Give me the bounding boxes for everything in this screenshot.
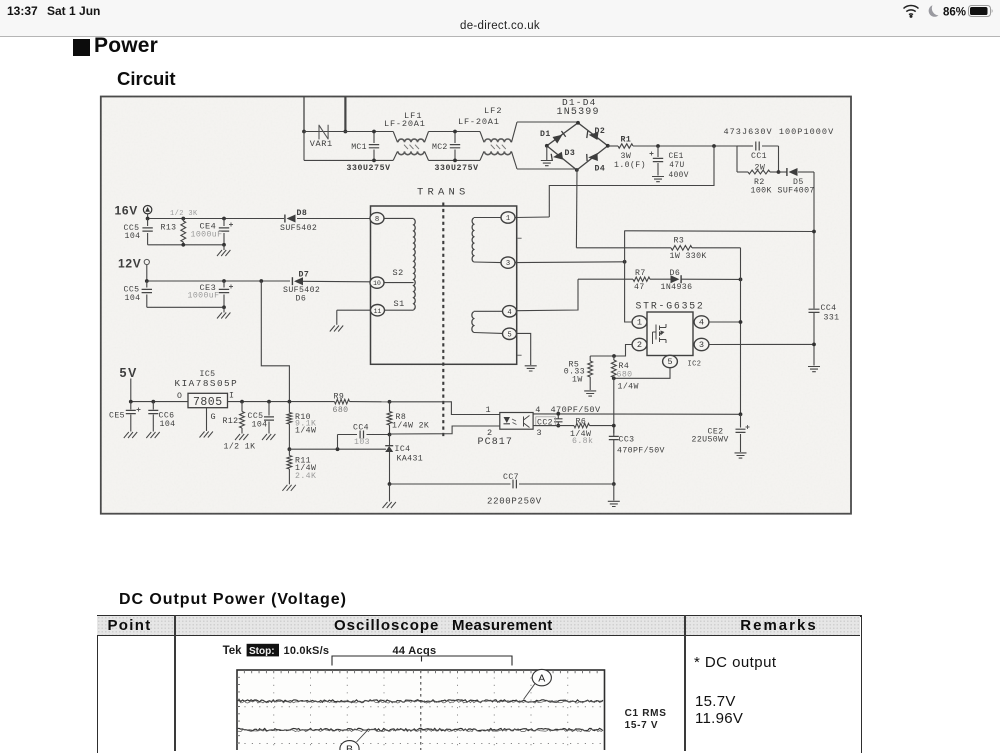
svg-text:3: 3 — [537, 428, 543, 438]
svg-text:470PF/50V: 470PF/50V — [617, 445, 665, 455]
svg-text:1/2 1K: 1/2 1K — [224, 441, 256, 451]
wire rail to PC817 pin1 — [390, 402, 500, 415]
svg-text:5V: 5V — [120, 366, 138, 380]
node KA431 cathode — [388, 433, 392, 437]
wire MC1 loop top rail — [304, 131, 393, 133]
node R4 top — [612, 354, 616, 358]
winding secondary lower — [474, 310, 502, 312]
capacitor CC5 (16V) — [146, 217, 150, 221]
svg-text:1W: 1W — [572, 375, 583, 384]
node CC3 bottom / CC7 line — [612, 482, 616, 486]
scope frame minor ticks — [237, 670, 597, 743]
wire AC input line 1 — [303, 97, 305, 132]
svg-text:O: O — [177, 392, 182, 401]
capacitor CC2 — [554, 419, 562, 422]
pin 1 of IC2 — [632, 316, 647, 328]
svg-text:S2: S2 — [393, 268, 404, 278]
diode D7 — [294, 277, 303, 285]
svg-text:104: 104 — [252, 420, 268, 429]
wire pin 11 to ground — [337, 309, 370, 311]
svg-text:1/4W: 1/4W — [618, 382, 639, 392]
diode D6 — [671, 275, 680, 283]
capacitor CE2 — [740, 414, 742, 427]
svg-text:R9: R9 — [334, 392, 345, 401]
wire 12V rail — [146, 265, 148, 281]
acquisition bracket — [332, 656, 512, 666]
node AC rail junctions — [302, 130, 306, 134]
svg-text:1: 1 — [486, 405, 492, 415]
svg-text:1/4W: 1/4W — [295, 425, 316, 435]
svg-text:680: 680 — [333, 406, 349, 415]
winding secondary upper — [474, 217, 501, 219]
wire 16V rail — [147, 214, 149, 219]
pin 3 of IC2 — [694, 338, 709, 350]
svg-text:STR-G6352: STR-G6352 — [636, 301, 705, 312]
svg-text:2: 2 — [637, 340, 642, 350]
svg-text:16V: 16V — [115, 204, 138, 218]
node R7 row right — [739, 278, 743, 282]
ground under CE3 — [223, 307, 225, 312]
marker B — [340, 741, 359, 753]
svg-text:PC817: PC817 — [478, 437, 514, 448]
svg-text:3: 3 — [699, 340, 704, 350]
ground under CC4 column — [808, 367, 820, 372]
svg-text:LF-20A1: LF-20A1 — [458, 117, 500, 127]
diode D2 — [587, 131, 599, 140]
svg-text:D2: D2 — [595, 127, 606, 136]
pin 4 — [503, 306, 517, 317]
trace B waveform — [238, 728, 604, 731]
resistor R13 — [181, 217, 185, 221]
capacitor CE1 — [656, 144, 660, 148]
wire 7805 ground lead — [206, 408, 208, 431]
section heading Power — [73, 39, 90, 56]
wire pin1 stub — [625, 316, 632, 322]
svg-text:5: 5 — [667, 357, 672, 367]
op-amp U1 STR-G6352 IC2 — [647, 312, 693, 356]
pin 4 of IC2 — [694, 316, 709, 328]
capacitor CC5 (5V) — [267, 400, 271, 404]
svg-text:D7: D7 — [299, 270, 310, 279]
svg-text:CC4: CC4 — [353, 423, 369, 432]
wire KA431 reference line — [289, 448, 386, 450]
svg-text:3: 3 — [506, 260, 510, 268]
capacitor MC2 — [454, 132, 456, 144]
svg-text:1W 330K: 1W 330K — [670, 252, 707, 261]
wire feedback column — [613, 378, 615, 433]
svg-text:1N5399: 1N5399 — [557, 107, 600, 118]
svg-text:1/4W 2K: 1/4W 2K — [392, 421, 429, 431]
resistor R3 — [671, 246, 692, 251]
diode bridge D1-D4 — [547, 123, 608, 170]
svg-text:1N4936: 1N4936 — [661, 283, 693, 292]
pin 1 — [501, 212, 515, 223]
capacitor CE4 — [222, 217, 226, 221]
wire PC817 pin3 line — [533, 425, 574, 427]
wire pin3 to CC4 column — [709, 343, 814, 345]
wire MC1 loop left side — [303, 132, 305, 161]
svg-text:CC4: CC4 — [821, 304, 837, 313]
wire primary feed to pin 1 — [549, 146, 714, 217]
transformer TRANS body — [371, 206, 517, 364]
svg-text:CC7: CC7 — [503, 473, 519, 482]
transistor inside PC817 — [524, 416, 530, 428]
resistor R6 — [574, 423, 590, 427]
pin 11 — [371, 305, 385, 316]
ground under CC6 — [146, 432, 151, 438]
wire MC1 loop bottom rail — [304, 159, 393, 161]
svg-text:KIA78S05P: KIA78S05P — [175, 378, 239, 389]
ground at bridge left vertex — [546, 146, 548, 160]
ground under R12 — [235, 434, 240, 440]
svg-text:104: 104 — [125, 294, 141, 303]
svg-text:LF-20A1: LF-20A1 — [384, 119, 426, 129]
svg-text:SUF4007: SUF4007 — [778, 187, 815, 196]
wire R7/D6 row — [578, 278, 633, 280]
svg-text:R7: R7 — [635, 269, 646, 278]
capacitor CE5 — [129, 400, 133, 404]
schematic frame — [101, 97, 851, 514]
svg-text:D1: D1 — [540, 130, 551, 139]
pin 8 — [370, 213, 384, 224]
wifi icon — [904, 6, 919, 15]
resistor R10 — [288, 402, 290, 413]
wire 5V rail — [131, 401, 188, 403]
ground under R11 — [282, 485, 287, 491]
wire pin 3 to gate column — [515, 261, 624, 264]
ground under CC5 (5V) — [262, 434, 267, 440]
svg-text:SUF5402: SUF5402 — [280, 224, 317, 233]
svg-text:KA431: KA431 — [397, 454, 424, 463]
svg-text:1000uF: 1000uF — [188, 292, 220, 301]
moon icon — [929, 5, 939, 17]
svg-text:103: 103 — [354, 438, 370, 447]
svg-text:G: G — [211, 412, 217, 422]
svg-text:R6: R6 — [576, 417, 587, 426]
svg-text:331: 331 — [824, 313, 840, 322]
ground under KA431 — [389, 484, 391, 502]
ground under 7805 — [200, 432, 205, 438]
regulator IC5 KIA78S05P 7805 — [188, 393, 228, 407]
svg-text:CE1: CE1 — [669, 153, 684, 161]
node KA431 anode / CC7 line — [388, 482, 392, 486]
resistor R12 — [240, 400, 244, 404]
svg-text:CC1: CC1 — [751, 152, 767, 161]
svg-text:1.0(F): 1.0(F) — [614, 160, 646, 170]
trace A waveform — [238, 700, 604, 702]
svg-text:7805: 7805 — [193, 396, 223, 409]
svg-text:470PF/50V: 470PF/50V — [551, 405, 601, 415]
svg-text:473J630V 100P1000V: 473J630V 100P1000V — [724, 127, 835, 137]
svg-text:TRANS: TRANS — [417, 187, 470, 199]
inductor LF2 — [480, 132, 484, 143]
wire KA431 to PC817 pin2 — [390, 426, 500, 434]
resistor R2 — [737, 171, 748, 173]
ground at pin 11 — [330, 326, 335, 332]
resistor R11 — [287, 456, 292, 470]
capacitor CC1 — [737, 145, 753, 147]
node R2/D5 junction — [777, 170, 781, 174]
capacitor CC3 — [609, 436, 619, 439]
svg-text:11: 11 — [374, 308, 382, 315]
wire bridge minus drop — [575, 169, 578, 248]
diode D1 — [553, 131, 566, 144]
svg-text:R8: R8 — [396, 413, 407, 422]
winding primary left — [384, 217, 414, 219]
svg-text:D6: D6 — [670, 269, 681, 278]
wire 5V stub — [130, 379, 132, 402]
ground under CE5 — [124, 432, 129, 438]
scope center dashed line — [420, 670, 422, 750]
svg-text:1000uF: 1000uF — [191, 231, 223, 240]
svg-text:22U50WV: 22U50WV — [692, 436, 729, 445]
node regulator input junction — [288, 400, 292, 404]
capacitor CC6 — [151, 400, 155, 404]
svg-text:330U275V: 330U275V — [347, 164, 391, 173]
resistor R7 — [633, 277, 650, 281]
capacitor CE3 — [222, 279, 226, 283]
node 12V feed junction — [259, 279, 263, 283]
wire MC2 loop rails — [429, 131, 481, 133]
capacitor CC7 — [390, 483, 511, 485]
wire TRANS isolation dashed line — [442, 203, 444, 440]
diode D5 — [779, 171, 788, 173]
pin 5 of IC2 — [663, 355, 678, 367]
ground under R5 — [584, 391, 596, 396]
svg-text:D8: D8 — [297, 209, 308, 218]
svg-text:4: 4 — [507, 309, 511, 317]
svg-text:400V: 400V — [669, 172, 689, 180]
wire drain column — [740, 248, 742, 414]
wire 12V bottom rail — [147, 306, 224, 308]
ground under CC3 column — [613, 484, 615, 501]
pin 2 of IC2 — [632, 338, 647, 350]
svg-text:1: 1 — [637, 318, 642, 328]
svg-text:R13: R13 — [161, 224, 177, 233]
svg-text:DC Output Power (Voltage): DC Output Power (Voltage) — [119, 591, 347, 608]
svg-text:6.8k: 6.8k — [572, 436, 593, 446]
svg-text:VAR1: VAR1 — [310, 139, 333, 149]
wire bridge output rail — [608, 145, 618, 147]
svg-text:104: 104 — [160, 420, 176, 429]
svg-text:CE5: CE5 — [109, 411, 125, 420]
wire 12V feed to regulator input — [261, 281, 289, 402]
wire D5 to snubber column — [813, 172, 815, 232]
node R10/R11 junction — [288, 447, 292, 451]
resistor R8 — [388, 400, 392, 404]
svg-text:1/2 3K: 1/2 3K — [170, 210, 198, 218]
svg-text:4: 4 — [535, 405, 541, 415]
svg-text:47U: 47U — [669, 162, 684, 170]
svg-text:100K: 100K — [751, 187, 772, 196]
resistor R5 — [589, 356, 591, 361]
wire R3 row — [576, 247, 671, 249]
op-amp U2 PC817 optocoupler — [500, 413, 533, 430]
wire pin5 to R4 bottom — [614, 368, 670, 379]
scope graticule dots — [273, 670, 275, 750]
ground under CE4 — [223, 245, 225, 250]
status / url bar — [0, 0, 1000, 37]
svg-text:330U275V: 330U275V — [435, 164, 479, 173]
wire regulator input rail — [228, 401, 335, 403]
ground under CE2 — [735, 453, 747, 458]
wire pin 4 riser — [517, 279, 578, 311]
capacitor MC1 — [373, 132, 375, 144]
wire pin4 to drain column — [709, 321, 741, 323]
capacitor CC4 103 — [337, 435, 339, 450]
svg-text:D3: D3 — [565, 149, 576, 158]
node R6 right / feedback column — [612, 424, 616, 428]
capacitor CC5 (12V) — [145, 279, 149, 283]
node pin3/gate junction — [623, 260, 627, 264]
wire TRANS edge ticks — [517, 238, 522, 355]
svg-text:2200P250V: 2200P250V — [487, 496, 542, 506]
ground at pin 5 — [525, 366, 537, 371]
resistor R9 — [335, 399, 350, 404]
node CC2 top — [556, 412, 560, 416]
wire PC817 pin4 line — [533, 413, 740, 415]
svg-text:R1: R1 — [621, 135, 632, 144]
resistor R4 — [611, 360, 616, 378]
marker A — [532, 669, 551, 685]
svg-text:CC3: CC3 — [619, 435, 635, 444]
svg-text:R12: R12 — [223, 417, 239, 426]
pin 10 — [370, 277, 384, 288]
svg-text:12V: 12V — [118, 257, 141, 271]
diode D4 — [587, 153, 598, 162]
scope graticule frame — [237, 670, 605, 753]
svg-text:104: 104 — [125, 232, 141, 241]
svg-text:R3: R3 — [674, 237, 685, 246]
node pin4 line right end — [739, 412, 743, 416]
remarks cell — [694, 654, 777, 671]
node CC2 bottom — [556, 424, 560, 428]
pin 3 — [501, 257, 515, 268]
wire snubber top link — [625, 230, 814, 233]
wire CC1/R2 loop sides — [736, 146, 738, 172]
transistor MOSFET inside IC2 — [653, 324, 667, 344]
svg-text:LF2: LF2 — [484, 106, 502, 116]
svg-text:3W: 3W — [621, 152, 632, 161]
svg-text:MC2: MC2 — [432, 143, 448, 152]
wire AC input line 2 — [344, 97, 346, 132]
wire gate column — [624, 231, 626, 317]
svg-text:MC1: MC1 — [351, 143, 367, 152]
svg-text:8: 8 — [375, 216, 379, 224]
varistor VAR1 — [319, 125, 328, 140]
svg-text:IC2: IC2 — [688, 360, 702, 368]
capacitor CC4 331 — [813, 232, 815, 309]
node CC4 feedback tap — [336, 447, 340, 451]
wire 16V bottom rail — [148, 244, 224, 246]
svg-text:1: 1 — [506, 215, 510, 223]
svg-text:D4: D4 — [595, 165, 606, 174]
svg-text:4: 4 — [699, 318, 704, 328]
svg-text:5: 5 — [507, 331, 511, 339]
measurement table — [97, 615, 862, 753]
inductor LF1 — [393, 132, 397, 143]
transistor IC4 KA431 — [389, 435, 391, 446]
wire pin2 to R5/R4 — [590, 345, 632, 357]
svg-text:D6: D6 — [296, 295, 307, 304]
resistor R1 — [618, 144, 633, 148]
pin 5 — [503, 328, 517, 339]
diode LED inside PC817 — [504, 417, 511, 423]
svg-text:2.4K: 2.4K — [295, 472, 316, 481]
svg-text:I: I — [229, 392, 234, 401]
svg-text:IC4: IC4 — [395, 445, 411, 454]
node R4 bottom — [612, 376, 616, 380]
svg-text:S1: S1 — [394, 299, 405, 309]
diode D3 — [551, 152, 563, 162]
node CC1 junction — [712, 144, 716, 148]
sub heading Circuit — [117, 68, 176, 90]
svg-text:47: 47 — [634, 283, 645, 292]
svg-text:10: 10 — [373, 280, 381, 287]
diode D8 — [287, 215, 296, 223]
wire pin 5 to ground — [517, 333, 531, 365]
